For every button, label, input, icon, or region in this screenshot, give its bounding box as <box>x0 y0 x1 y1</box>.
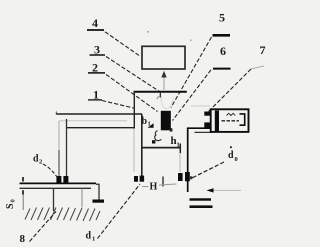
box inner squiggle top <box>227 113 236 115</box>
nozzle cup (faint) <box>161 96 173 109</box>
box left blob lower <box>204 122 211 128</box>
stand left vertical <box>53 189 55 212</box>
frame beam top line <box>56 113 142 115</box>
leader 1 <box>102 101 134 109</box>
H right dash <box>159 184 177 185</box>
arrow to display unit <box>163 77 165 90</box>
depth mark foot <box>93 200 105 203</box>
body left edge faint continuation <box>133 129 135 173</box>
nozzle tick <box>159 92 161 98</box>
leader d2 (curved) <box>43 164 59 179</box>
sensing element (black core) <box>161 111 171 131</box>
leader 7 <box>209 69 252 112</box>
label 7 <box>260 43 266 57</box>
label 6 <box>220 44 226 58</box>
right leg tip B <box>140 176 145 182</box>
svg-text:4: 4 <box>92 16 98 30</box>
label d1 <box>86 231 96 243</box>
leader 7 tail <box>251 66 264 69</box>
underline 3 <box>90 54 106 56</box>
svg-text:d: d <box>86 231 92 242</box>
box left blob upper <box>204 112 211 116</box>
underline 6 <box>213 68 231 70</box>
label h1 <box>171 135 180 149</box>
left leg outer line <box>58 121 60 150</box>
stand right vertical <box>81 189 83 208</box>
label S0 (rotated) <box>5 199 17 209</box>
svg-text:7: 7 <box>260 43 266 57</box>
wire rod to box <box>187 127 211 129</box>
S0 tick above <box>22 177 24 182</box>
support bar lower <box>190 205 213 208</box>
body left edge <box>133 91 135 129</box>
workpiece bottom line <box>20 187 92 189</box>
box inner bar <box>215 111 219 132</box>
H mid tick <box>162 177 164 187</box>
b1 arrow triangle <box>148 123 154 128</box>
right leg tip A <box>134 176 138 182</box>
rod nub <box>190 176 193 179</box>
scan speck <box>190 40 192 42</box>
underline 2 <box>88 72 105 74</box>
H left dash <box>142 186 149 188</box>
leader 2 <box>106 74 158 111</box>
label 4 <box>92 16 98 30</box>
depth mark top tick <box>96 183 100 185</box>
svg-text:d: d <box>228 150 234 161</box>
underline 1 <box>88 99 102 101</box>
svg-text:5: 5 <box>219 10 225 24</box>
svg-text:0: 0 <box>10 199 17 202</box>
leader d0 <box>191 162 224 179</box>
workpiece top line <box>20 182 97 184</box>
underline 5 <box>213 34 231 37</box>
body top line <box>134 91 187 93</box>
h1 line <box>141 147 180 149</box>
contact dot <box>152 140 155 143</box>
display unit rectangle (pos.4) <box>142 46 185 69</box>
scan speck <box>147 31 149 33</box>
box inner link line <box>222 120 240 122</box>
small mark below core right <box>170 128 173 131</box>
transducer box (pos.7) <box>211 109 249 132</box>
svg-text:2: 2 <box>39 159 42 166</box>
h1 right tick <box>179 144 181 154</box>
left leg tip B <box>63 176 68 183</box>
right leg outer line <box>141 114 143 176</box>
S0 extension line <box>22 195 24 210</box>
leader 8 <box>30 212 57 242</box>
S0 tick below <box>22 190 24 194</box>
faint line to box <box>191 105 210 107</box>
label 3 <box>94 43 100 57</box>
beam mid faint line <box>59 120 127 122</box>
label 5 <box>219 10 225 24</box>
spring curl under core <box>155 131 162 141</box>
box inner bracket <box>240 114 245 125</box>
svg-text:8: 8 <box>20 233 26 245</box>
svg-text:6: 6 <box>220 44 226 58</box>
leader 4 <box>105 32 141 57</box>
svg-text:S: S <box>5 203 16 209</box>
support bar upper <box>190 198 212 200</box>
svg-text:H: H <box>150 182 158 193</box>
underline 4 <box>87 29 104 31</box>
motion arrow <box>207 188 214 192</box>
faint right inner vertical <box>179 153 181 172</box>
leader d1 <box>98 184 141 239</box>
beam left start tick <box>55 112 57 115</box>
leader 6 <box>173 70 212 121</box>
left leg tip A <box>56 176 61 183</box>
nozzle hook <box>157 97 160 100</box>
label b1 <box>142 116 151 128</box>
svg-text:1: 1 <box>92 236 95 243</box>
label d2 <box>33 154 42 166</box>
svg-text:0: 0 <box>235 156 238 163</box>
label 2 <box>92 60 98 74</box>
lower wire line <box>195 131 213 133</box>
left leg inner line <box>66 119 68 177</box>
leader 5 <box>171 37 212 108</box>
beam bottom line <box>66 127 135 129</box>
depth mark vertical <box>98 184 100 200</box>
right contact blob <box>178 173 183 181</box>
hatching (ground) <box>25 208 100 222</box>
label d0 <box>228 146 238 163</box>
rod contact thickening <box>185 172 190 181</box>
rod (measuring stem) <box>187 128 189 192</box>
label 1 <box>93 88 99 102</box>
leader 3 <box>106 57 160 92</box>
